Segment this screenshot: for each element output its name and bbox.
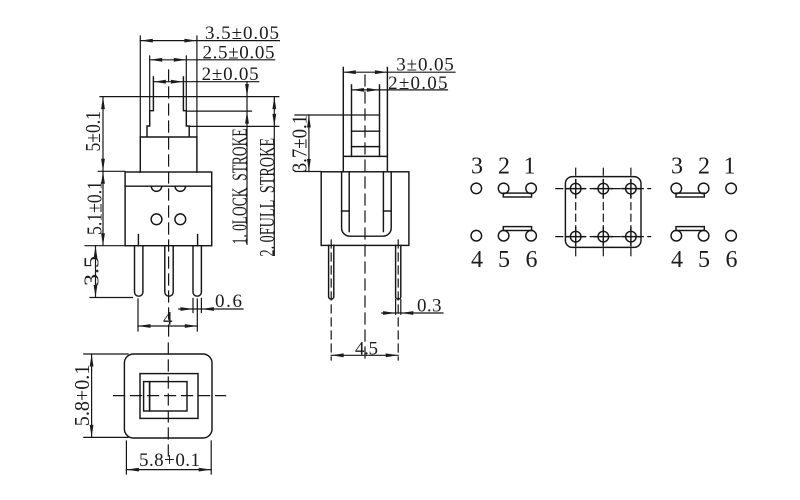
footprint dashed col line 2 [602, 168, 604, 256]
svg-text:2±0.05: 2±0.05 [388, 73, 447, 94]
left pin circle 5 [498, 230, 509, 241]
footprint hole 6 [622, 228, 640, 246]
right pin circle 6 [726, 230, 737, 241]
circle right [175, 214, 186, 225]
svg-text:5±0.1: 5±0.1 [81, 111, 105, 152]
right link 3-2 [676, 193, 704, 197]
right labels 4 5 6 [671, 247, 738, 273]
dim 3.5 pin length [80, 246, 133, 298]
left labels 3 2 1 [471, 153, 536, 179]
svg-text:3.7±0.1: 3.7±0.1 [288, 115, 312, 173]
dim 3.7±0.1 side [288, 115, 380, 173]
pin 2 front [165, 246, 173, 296]
footprint hole 1 [567, 180, 585, 198]
right link 4-5 [676, 227, 704, 231]
side plunger outer [343, 68, 387, 172]
centerline front view [168, 70, 170, 341]
svg-text:4: 4 [671, 247, 683, 273]
pin 3 front [193, 246, 201, 296]
body inner line front [125, 185, 212, 187]
left pin circle 2 [498, 183, 509, 194]
svg-text:1: 1 [524, 153, 536, 179]
footprint hole 4 [567, 228, 585, 246]
dim 0.3 side [382, 295, 443, 316]
svg-text:4.5: 4.5 [355, 339, 378, 360]
dim 2±0.05 side [352, 73, 448, 94]
stroke line full [189, 125, 279, 127]
footprint hole 3 [622, 180, 640, 198]
dim 3±0.05 side [343, 55, 455, 76]
left pin circle 1 [526, 183, 537, 194]
left pin circle 4 [471, 230, 482, 241]
pin tick left [137, 235, 139, 246]
svg-text:2±0.05: 2±0.05 [202, 64, 259, 85]
left link 5-6 [503, 227, 531, 231]
stroke line lock [186, 110, 251, 112]
svg-text:0.6: 0.6 [215, 291, 242, 312]
right pin circle 4 [671, 230, 682, 241]
footprint body [565, 177, 641, 248]
side pin left [329, 245, 334, 299]
footprint dashed row line bottom [556, 236, 651, 238]
body front [125, 172, 212, 246]
footprint hole 5 [594, 228, 612, 246]
svg-text:2: 2 [698, 153, 710, 179]
plunger outline front [140, 77, 197, 172]
lock stroke dim line [227, 82, 251, 245]
svg-text:6: 6 [526, 247, 538, 273]
top view h centerline [114, 395, 226, 397]
dim 4 pin pitch [138, 299, 197, 331]
dim 2.5±0.05 [150, 43, 275, 111]
top view v centerline [167, 343, 169, 462]
svg-text:5: 5 [698, 247, 710, 273]
side plunger rib 3 [352, 146, 380, 148]
dim 5±0.1 [81, 97, 125, 172]
right pin circle 2 [698, 183, 709, 194]
top view middle rect [140, 374, 198, 419]
dim 4.5 side [331, 339, 398, 360]
dim 3.5±0.05 [140, 23, 279, 137]
right labels 3 2 1 [671, 153, 736, 179]
side body [321, 172, 409, 246]
svg-text:1. 0LOCK STROKE: 1. 0LOCK STROKE [227, 128, 251, 244]
svg-text:0.3: 0.3 [417, 295, 442, 316]
svg-text:5.8+0.1: 5.8+0.1 [139, 450, 200, 471]
svg-text:2. 0FULL STROKE: 2. 0FULL STROKE [255, 138, 279, 257]
side pin centerline right [397, 240, 399, 360]
left pin circle 6 [526, 230, 537, 241]
svg-text:5: 5 [498, 247, 510, 273]
svg-text:1: 1 [724, 153, 736, 179]
pin 1 front [135, 246, 143, 296]
pin tick right [197, 235, 199, 246]
circle left [151, 214, 162, 225]
right pin circle 3 [671, 183, 682, 194]
svg-text:4: 4 [163, 309, 173, 330]
dim 0.6 pin width [179, 291, 243, 313]
top view key rect [144, 382, 150, 411]
dim 2±0.05 front [153, 64, 258, 85]
svg-text:3: 3 [671, 153, 683, 179]
stroke line top [100, 96, 279, 98]
svg-text:3: 3 [471, 153, 483, 179]
right pin circle 5 [698, 230, 709, 241]
side pin right [396, 245, 401, 299]
full stroke dim line [255, 97, 279, 257]
svg-text:2: 2 [498, 153, 510, 179]
left link 2-1 [503, 193, 531, 197]
side plunger rib 2 [352, 130, 380, 132]
svg-text:6: 6 [726, 247, 738, 273]
side plunger inner [352, 85, 380, 156]
svg-text:3.5: 3.5 [80, 256, 104, 286]
side pin centerline left [330, 240, 332, 360]
half circle right [175, 186, 185, 191]
right pin circle 1 [726, 183, 737, 194]
side U inner verticals [349, 172, 383, 232]
side slot tick left [342, 210, 350, 212]
svg-text:5.8+0.1: 5.8+0.1 [70, 365, 94, 427]
side U channel [342, 172, 392, 236]
footprint dashed col line 1 [575, 168, 577, 256]
top view outer square [124, 354, 212, 438]
dim 5.1±0.1 [83, 171, 126, 245]
svg-text:2.5±0.05: 2.5±0.05 [203, 43, 275, 64]
svg-text:5.1±0.1: 5.1±0.1 [83, 181, 107, 235]
centerline side view [364, 75, 366, 362]
dim 5.8+0.1 left [70, 354, 128, 437]
dim 5.8+0.1 bottom [126, 441, 211, 474]
left pin circle 3 [471, 183, 482, 194]
svg-text:4: 4 [471, 247, 483, 273]
footprint hole 2 [594, 180, 612, 198]
svg-text:3.5±0.05: 3.5±0.05 [205, 23, 279, 44]
footprint dashed col line 3 [630, 168, 632, 256]
footprint dashed row line top [556, 188, 651, 190]
side slot tick right [383, 210, 391, 212]
top view button rect [150, 382, 187, 411]
left labels 4 5 6 [471, 247, 538, 273]
half circle left [151, 186, 161, 191]
